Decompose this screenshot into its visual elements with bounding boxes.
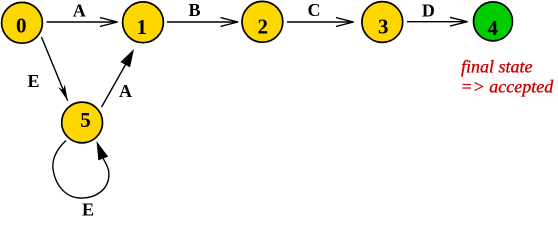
svg-text:1: 1	[136, 15, 147, 39]
svg-text:3: 3	[378, 14, 389, 38]
svg-text:A: A	[119, 81, 132, 101]
svg-text:=> accepted: => accepted	[461, 77, 555, 97]
svg-text:C: C	[308, 0, 321, 20]
svg-text:4: 4	[488, 16, 499, 40]
svg-text:E: E	[27, 71, 39, 91]
svg-text:5: 5	[80, 108, 91, 132]
svg-text:E: E	[82, 200, 94, 219]
svg-text:2: 2	[258, 14, 269, 38]
svg-text:0: 0	[16, 14, 27, 38]
svg-text:A: A	[73, 1, 86, 21]
svg-text:D: D	[422, 1, 435, 21]
svg-text:final state: final state	[461, 57, 533, 77]
svg-text:B: B	[188, 0, 200, 20]
